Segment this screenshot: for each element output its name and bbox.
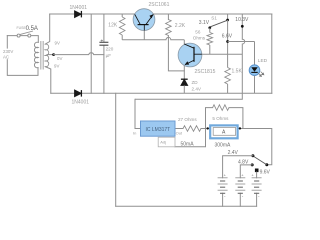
svg-text:3.1V: 3.1V (199, 20, 210, 26)
wire Q2 collector riser (183, 40, 185, 45)
svg-text:2.2K: 2.2K (175, 23, 186, 29)
wire LED top lead (254, 42, 256, 66)
resistor R6 5 Ohms (213, 105, 229, 111)
switch S1 (227, 14, 229, 20)
wire Adj return (175, 129, 206, 147)
resistor R3 56 Ohms (209, 28, 211, 33)
battery cell plates at x=222.6 (218, 177, 228, 179)
wire LED bottom lead (254, 76, 256, 94)
wire rail2 output of Q1 emitter (153, 13, 271, 15)
node ammeter terminal dots (207, 127, 209, 129)
resistor R2 2.2K leads (168, 14, 184, 71)
LED D3 (249, 65, 260, 76)
svg-text:1.5K: 1.5K (232, 68, 243, 74)
svg-text:6.6V: 6.6V (222, 33, 233, 39)
svg-text:9.6V: 9.6V (260, 169, 271, 175)
wire IC In drop (135, 99, 141, 128)
wire bottom return (116, 205, 257, 207)
wire 27 ohm to ammeter (201, 128, 210, 130)
svg-text:300mA: 300mA (215, 143, 232, 149)
transformer T1 primary winding (34, 42, 38, 68)
svg-text:LED: LED (258, 58, 268, 64)
wire 5 ohm right lead (229, 108, 243, 129)
capacitor C1 220uF plates (99, 41, 108, 43)
transistor Q2 2SC1815 (178, 43, 202, 67)
svg-text:Adj: Adj (160, 139, 166, 144)
node 6.6V dot (226, 40, 229, 43)
label 230V AC (2, 49, 13, 60)
diode D1 1N4001 (75, 11, 82, 18)
svg-text:µF: µF (106, 53, 112, 58)
wire IC Out to 27 ohm (175, 128, 183, 130)
wire v1: S1 down to 1.5K (227, 20, 229, 68)
svg-text:IC LM317T: IC LM317T (146, 127, 171, 133)
svg-text:9V: 9V (55, 40, 60, 45)
zener diode ZD 2.4V (181, 79, 188, 85)
svg-text:2.4V: 2.4V (228, 150, 239, 156)
svg-text:AC: AC (3, 55, 9, 60)
pin Adj tab box (158, 137, 175, 147)
svg-text:50mA: 50mA (181, 142, 195, 148)
ammeter M1 (210, 125, 237, 138)
svg-text:12K: 12K (108, 23, 118, 29)
fuse F1 wires (7, 36, 38, 43)
wire ammeter out to right border (238, 129, 272, 165)
resistor R4 1.5K (225, 68, 231, 85)
wire ground rail (51, 92, 272, 94)
svg-text:2SC1815: 2SC1815 (195, 69, 216, 75)
svg-text:27 Ohms: 27 Ohms (178, 117, 197, 122)
diode D2 1N4001 (75, 90, 82, 97)
wire secondary centre tap 0V (47, 54, 54, 56)
wire v2: 10.3V feed with hop over h1 (135, 14, 245, 99)
svg-text:4.8V: 4.8V (238, 160, 249, 166)
wire 2.4V tap (223, 156, 253, 178)
svg-text:2SC1061: 2SC1061 (149, 2, 170, 8)
wire 5 ohm left lead (206, 108, 213, 129)
wire Q2 base to v2 (202, 53, 242, 55)
wire Q2 emitter down to zener (183, 65, 185, 79)
svg-text:Out: Out (176, 131, 183, 136)
battery cell plates at x=240.3 (235, 177, 245, 179)
node contact 4.8V (251, 163, 254, 166)
fuse F1 symbol (17, 34, 20, 37)
wire D2 riser (90, 14, 92, 93)
wire 9.6V tap (256, 172, 258, 178)
svg-text:1N4001: 1N4001 (70, 5, 88, 11)
svg-text:0V: 0V (57, 56, 62, 61)
switch S2 battery selector pole (265, 163, 268, 166)
wire 4.8V tap (240, 165, 252, 178)
svg-text:0.5A: 0.5A (26, 26, 38, 32)
transformer T1 core (40, 41, 43, 70)
wire capacitor leads (103, 14, 105, 93)
wire rail1 unregulated + (50, 13, 135, 15)
wire 0V tap to capacitor bottom lead, hop over D2 riser (54, 53, 104, 55)
svg-text:2.4V: 2.4V (192, 87, 202, 92)
svg-text:In: In (133, 131, 136, 136)
svg-text:S1: S1 (211, 15, 217, 20)
IC U1 LM317T (141, 121, 176, 136)
svg-text:56: 56 (195, 30, 201, 35)
svg-text:10.3V: 10.3V (235, 17, 249, 23)
battery cell plates at x=256.6 (252, 177, 262, 179)
transformer T1 secondary winding (45, 44, 49, 67)
wire AC live: left drop from fuse line (7, 36, 38, 76)
svg-text:Ohms: Ohms (193, 35, 206, 40)
wire secondary top tap to rail1 (45, 14, 50, 44)
node contact 2.4V (251, 154, 254, 157)
LED emission arrows (258, 72, 264, 77)
node contact 9.6V square (255, 169, 259, 173)
svg-text:5 Ohms: 5 Ohms (212, 116, 229, 121)
transistor Q1 2SC1061 (133, 9, 155, 31)
svg-text:9V: 9V (54, 64, 59, 69)
wire Q1 base riser (143, 31, 145, 40)
resistor R2 2.2K zigzag (166, 20, 172, 36)
wire secondary bottom tap down to lower rectifier wire (45, 67, 51, 94)
svg-text:230V: 230V (3, 49, 13, 54)
node centre tap 0V junction dot (52, 53, 55, 56)
svg-text:ZD: ZD (192, 80, 199, 85)
wire battery bottoms (223, 193, 257, 206)
wire charger left return drop (115, 93, 117, 206)
resistor R5 27 Ohms (183, 126, 201, 132)
node 10.3V dot (241, 25, 244, 28)
svg-text:220: 220 (106, 46, 114, 51)
wire base node horizontal (12K to Q1 base to Q2 collector) with hop over 2.2K lead (122, 37, 184, 39)
wire right border top section (271, 14, 273, 93)
svg-text:1N4001: 1N4001 (72, 100, 90, 106)
wire h1: 6.6V node to LED (228, 41, 255, 43)
resistor R1 12K (121, 14, 123, 17)
